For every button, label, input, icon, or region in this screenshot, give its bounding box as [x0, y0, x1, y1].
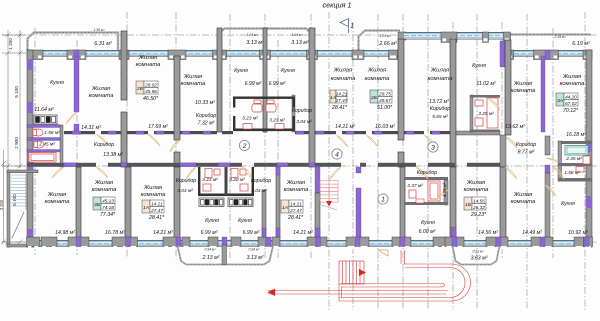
svg-text:1 200: 1 200	[8, 38, 13, 50]
svg-text:комната: комната	[464, 187, 489, 193]
svg-text:комната: комната	[141, 192, 166, 198]
svg-text:70.12*: 70.12*	[563, 108, 579, 114]
svg-text:14.21 м²: 14.21 м²	[153, 230, 173, 236]
svg-text:0.91 м²: 0.91 м²	[473, 250, 485, 254]
svg-text:2В: 2В	[136, 86, 144, 92]
lower wall x=315	[315, 167, 320, 193]
svg-text:3.13 м²: 3.13 м²	[247, 255, 264, 261]
svg-text:Жилая: Жилая	[143, 185, 163, 191]
svg-text:Жилая: Жилая	[91, 86, 111, 92]
unit table 1Б	[464, 197, 486, 210]
svg-text:67.02: 67.02	[565, 101, 577, 106]
svg-text:5.65 м²: 5.65 м²	[432, 114, 448, 120]
svg-text:14.98 м²: 14.98 м²	[55, 230, 75, 236]
svg-text:Жилая: Жилая	[138, 55, 158, 61]
stair number 4	[332, 149, 342, 159]
svg-text:27.47: 27.47	[150, 208, 163, 213]
lower wall x=500	[500, 167, 506, 238]
svg-text:14.31 м²: 14.31 м²	[81, 125, 101, 131]
svg-text:14.56 м²: 14.56 м²	[478, 230, 498, 236]
bay divider	[222, 245, 227, 265]
svg-text:секция 1: секция 1	[323, 1, 352, 10]
svg-text:4.39 м²: 4.39 м²	[442, 182, 447, 197]
balcony 2.66 outline	[359, 31, 401, 51]
svg-text:1А: 1А	[143, 205, 149, 211]
svg-text:44.20: 44.20	[565, 94, 577, 99]
wall x=263 divider	[263, 28, 267, 132]
svg-text:28.41*: 28.41*	[287, 215, 304, 221]
lower wall x=400	[400, 167, 405, 238]
red stair tread grid	[320, 181, 338, 203]
svg-text:6.19 м²: 6.19 м²	[572, 41, 590, 47]
red fixtures core	[243, 100, 284, 129]
top exterior wall far right section	[507, 50, 592, 57]
stair diagonal	[320, 205, 337, 211]
svg-text:Кухня: Кухня	[234, 68, 248, 74]
svg-text:16.03 м²: 16.03 м²	[375, 124, 395, 130]
unit table 1А	[330, 90, 347, 103]
svg-text:14.21: 14.21	[290, 201, 302, 206]
svg-text:Жилая: Жилая	[367, 68, 387, 74]
svg-text:11.02 м²: 11.02 м²	[476, 81, 496, 87]
corridor wall 456-500	[456, 131, 500, 135]
svg-text:Кухня: Кухня	[50, 80, 64, 86]
wall x=309	[309, 28, 315, 167]
svg-text:Жилая: Жилая	[562, 74, 582, 80]
corridor 8.77 walls	[500, 135, 506, 167]
svg-text:Коридор: Коридор	[176, 178, 196, 184]
svg-text:Коридор: Коридор	[516, 142, 536, 148]
svg-text:комната: комната	[428, 76, 453, 82]
bath 2.45 right	[558, 141, 592, 144]
svg-text:Кухня: Кухня	[472, 63, 486, 69]
red escape stair box	[339, 261, 364, 284]
svg-text:5 100: 5 100	[14, 86, 19, 98]
unit table 3Б	[93, 197, 115, 210]
svg-text:2.45 м²: 2.45 м²	[38, 142, 55, 148]
svg-text:Коридор: Коридор	[417, 170, 437, 176]
left flat partitions horizontals	[27, 125, 60, 128]
kitchen counter flat1	[34, 115, 57, 124]
svg-text:1А: 1А	[282, 205, 288, 211]
svg-text:28.02: 28.02	[144, 82, 157, 87]
svg-text:17.69 м²: 17.69 м²	[148, 124, 168, 130]
door swing arcs	[52, 99, 564, 200]
svg-text:комната: комната	[365, 76, 390, 82]
svg-text:1.04 м²: 1.04 м²	[247, 33, 259, 37]
svg-text:3.63 м²: 3.63 м²	[471, 256, 488, 262]
stair number 3	[428, 142, 438, 152]
red ramp connector	[268, 250, 471, 301]
svg-text:1Б: 1Б	[465, 202, 472, 208]
red ramp racetrack	[339, 264, 471, 301]
svg-text:3.25 м²: 3.25 м²	[478, 111, 494, 117]
wall x=505	[505, 40, 511, 135]
unit table 3А	[556, 93, 578, 106]
lower bath red fixtures	[203, 169, 248, 192]
wall x=121	[121, 31, 127, 100]
svg-text:3.13 м²: 3.13 м²	[246, 40, 264, 46]
svg-text:комната: комната	[560, 81, 585, 87]
svg-text:2.13 м²: 2.13 м²	[202, 255, 220, 261]
balcony 3.13 left+right outline	[218, 29, 313, 51]
extra dim line far left	[3, 150, 5, 242]
svg-text:2 900: 2 900	[14, 137, 19, 149]
red arrow left	[268, 289, 276, 297]
middle horizontal wall segments	[27, 163, 64, 167]
red bathtub flat1	[29, 153, 56, 163]
svg-text:Кухня: Кухня	[561, 201, 575, 207]
svg-text:28.41*: 28.41*	[331, 105, 348, 111]
svg-text:1: 1	[381, 196, 385, 203]
red toilet 1.58	[29, 129, 56, 162]
svg-text:27.47: 27.47	[335, 98, 348, 103]
wall x=292 bath core right	[292, 95, 295, 132]
svg-text:Жилая: Жилая	[513, 192, 533, 198]
svg-text:74.18: 74.18	[102, 205, 114, 210]
corridor left wall x=60	[60, 125, 63, 167]
svg-text:комната: комната	[331, 76, 356, 82]
svg-text:10.33 м²: 10.33 м²	[195, 100, 215, 106]
svg-text:14.21 м²: 14.21 м²	[335, 124, 355, 130]
svg-text:45.96: 45.96	[145, 89, 157, 94]
svg-text:комната: комната	[45, 199, 70, 205]
bottom exterior wall	[27, 240, 592, 247]
svg-text:Коридор: Коридор	[196, 113, 216, 119]
svg-text:3: 3	[431, 144, 435, 151]
svg-text:3Б: 3Б	[94, 202, 101, 208]
red arrow right	[359, 269, 366, 276]
svg-text:комната: комната	[181, 81, 206, 87]
svg-text:1.58 м²: 1.58 м²	[44, 130, 60, 136]
svg-text:13.62 м²: 13.62 м²	[505, 124, 525, 130]
svg-text:3.13 м²: 3.13 м²	[291, 40, 309, 46]
unit table 2В	[136, 81, 158, 94]
svg-text:13.72 м²: 13.72 м²	[429, 99, 449, 105]
stair number 2	[239, 140, 249, 150]
wall x=174	[174, 56, 180, 140]
red tub vertical	[409, 181, 440, 201]
svg-text:29.75: 29.75	[378, 91, 391, 96]
svg-text:6.99 м²: 6.99 м²	[269, 81, 286, 87]
svg-text:Кухня: Кухня	[281, 68, 295, 74]
svg-text:14.21: 14.21	[151, 201, 163, 206]
dimension lines left	[2, 30, 26, 245]
svg-text:Жилая: Жилая	[286, 180, 306, 186]
svg-text:Жилая: Жилая	[333, 68, 353, 74]
right bay 3.63 outline	[453, 246, 500, 265]
svg-text:6.99 м²: 6.99 м²	[201, 230, 218, 236]
svg-text:Кухня: Кухня	[238, 218, 252, 224]
lower wall x=174	[174, 167, 180, 238]
svg-text:3.20 м²: 3.20 м²	[229, 177, 245, 183]
svg-text:Коридор: Коридор	[292, 108, 312, 114]
wall x=450	[450, 39, 456, 167]
svg-text:13.38 м²: 13.38 м²	[103, 152, 123, 158]
svg-text:Жилая: Жилая	[47, 192, 67, 198]
svg-text:4: 4	[335, 151, 339, 158]
svg-text:8.77 м²: 8.77 м²	[518, 150, 535, 156]
svg-text:3.23 м²: 3.23 м²	[202, 177, 218, 183]
lower wall x=76	[76, 167, 81, 238]
svg-text:6.99 м²: 6.99 м²	[245, 81, 262, 87]
svg-text:2: 2	[242, 143, 247, 150]
top exterior wall right-upper section	[398, 32, 406, 40]
flag marker 1	[340, 19, 349, 27]
lower wall x=125	[125, 167, 131, 238]
svg-text:0.94 м²: 0.94 м²	[205, 248, 217, 252]
svg-text:3.04 м²: 3.04 м²	[296, 119, 312, 125]
balcony 6.31 outline	[28, 33, 119, 51]
svg-text:Коридор: Коридор	[94, 142, 114, 148]
svg-text:29.23*: 29.23*	[470, 212, 487, 218]
svg-text:28.41*: 28.41*	[148, 215, 165, 221]
red stair down arrow	[326, 201, 332, 207]
svg-text:0.94 м²: 0.94 м²	[249, 248, 261, 252]
teal bathtub	[565, 146, 588, 156]
svg-text:Жилая: Жилая	[466, 180, 486, 186]
svg-text:Жилая: Жилая	[430, 68, 450, 74]
stair arrow	[12, 212, 24, 238]
svg-text:6.00 м²: 6.00 м²	[419, 229, 436, 235]
wall x=398	[398, 39, 404, 140]
svg-text:3 300: 3 300	[0, 199, 4, 210]
red toilet 2.45	[576, 156, 590, 172]
svg-text:3.04 м²: 3.04 м²	[177, 188, 193, 194]
double bay 2.13/3.13 outline	[178, 246, 274, 265]
svg-text:6.31 м²: 6.31 м²	[94, 41, 112, 47]
orange ramp slope mark	[378, 250, 388, 256]
svg-text:45.13: 45.13	[102, 198, 114, 203]
unit table 2Б	[370, 90, 392, 103]
svg-text:14.21: 14.21	[336, 91, 348, 96]
left exterior wall	[27, 50, 33, 247]
svg-text:Коридор: Коридор	[430, 106, 450, 112]
svg-text:14.21 м²: 14.21 м²	[293, 230, 313, 236]
svg-text:1: 1	[350, 23, 354, 30]
svg-text:7.32 м²: 7.32 м²	[198, 121, 215, 127]
lower walls kitchen/room G	[262, 190, 266, 236]
svg-text:комната: комната	[511, 88, 536, 94]
balcony 6.19 outline	[508, 35, 591, 51]
svg-text:комната: комната	[136, 62, 161, 68]
svg-text:Кухня: Кухня	[205, 218, 219, 224]
svg-text:2Б: 2Б	[370, 95, 378, 101]
stair annex walls	[7, 170, 10, 247]
svg-text:комната: комната	[89, 93, 114, 99]
unit table 1А	[281, 200, 303, 213]
purple bits on middle wall	[64, 163, 76, 167]
lower bath walls	[198, 167, 200, 196]
svg-text:28.32: 28.32	[472, 205, 485, 210]
svg-text:Жилая: Жилая	[183, 74, 203, 80]
lower wall x=450	[450, 167, 456, 238]
svg-text:49.67: 49.67	[379, 98, 391, 103]
bathroom core walls	[233, 97, 295, 99]
svg-text:Кухня: Кухня	[421, 220, 435, 226]
svg-text:3.04 м²: 3.04 м²	[251, 188, 267, 194]
wall x=218 (bath core left)	[217, 28, 222, 132]
svg-text:16.18 м²: 16.18 м²	[566, 132, 586, 138]
stair treads	[11, 175, 26, 206]
svg-text:1.58 м²: 1.58 м²	[564, 170, 580, 176]
stair number 1	[378, 194, 388, 204]
right exterior wall	[586, 50, 592, 247]
svg-text:27.47: 27.47	[289, 208, 302, 213]
svg-text:14.49 м²: 14.49 м²	[522, 230, 542, 236]
small red label	[416, 199, 424, 203]
partition x=541 purple	[541, 56, 545, 132]
top exterior wall left section	[27, 50, 398, 57]
svg-text:11.64 м²: 11.64 м²	[34, 107, 54, 113]
svg-text:2.19 м²: 2.19 м²	[554, 35, 567, 39]
svg-text:комната: комната	[511, 199, 536, 205]
partition x=74 purple flat1	[74, 56, 79, 112]
svg-text:комната: комната	[92, 187, 117, 193]
svg-text:1.04 м²: 1.04 м²	[292, 33, 304, 37]
svg-text:1.03 м²: 1.03 м²	[380, 34, 392, 38]
kitchen counters lower mid	[199, 198, 253, 207]
svg-text:2.45 м²: 2.45 м²	[565, 156, 582, 162]
svg-text:Жилая: Жилая	[513, 81, 533, 87]
svg-text:51.00*: 51.00*	[377, 105, 393, 111]
svg-text:3.23 м²: 3.23 м²	[242, 116, 258, 122]
svg-text:46.50*: 46.50*	[143, 96, 159, 102]
bath 3.37 walls	[404, 177, 448, 180]
svg-text:3.23 м²: 3.23 м²	[269, 118, 285, 124]
corridor upper wall segments	[64, 131, 95, 134]
svg-text:Жилая: Жилая	[94, 180, 114, 186]
svg-text:6.99 м²: 6.99 м²	[243, 230, 260, 236]
svg-text:1.56 м²: 1.56 м²	[94, 28, 106, 32]
unit table 1А	[142, 200, 164, 213]
svg-text:3А: 3А	[557, 98, 563, 104]
svg-text:3.37 м²: 3.37 м²	[407, 183, 423, 189]
bathroom 3.25 box	[470, 95, 473, 132]
svg-text:77.34*: 77.34*	[100, 212, 116, 218]
svg-text:14.56: 14.56	[473, 198, 485, 203]
svg-text:комната: комната	[284, 187, 309, 193]
svg-text:Коридор: Коридор	[251, 178, 271, 184]
svg-text:16.78 м²: 16.78 м²	[105, 230, 125, 236]
svg-text:10.92 м²: 10.92 м²	[568, 230, 588, 236]
purple bit on wall x=450	[451, 227, 456, 238]
lower wall x=356 purple	[356, 167, 361, 173]
red toilet 2.45 flat1	[34, 141, 44, 148]
svg-text:2.66 м²: 2.66 м²	[378, 41, 397, 47]
